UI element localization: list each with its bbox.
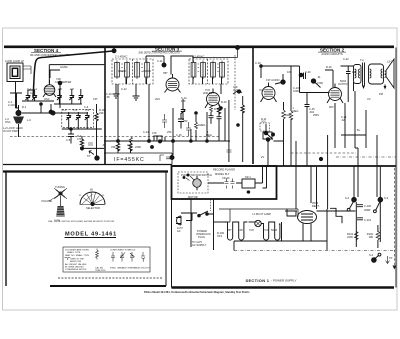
wires section 3 lower [104, 84, 230, 141]
svg-text:AC: AC [177, 229, 181, 233]
cap C-13 [186, 122, 191, 136]
svg-text:Z-1 455KC: Z-1 455KC [115, 55, 128, 59]
volume control R-11 [264, 124, 274, 145]
svg-text:2200: 2200 [347, 235, 353, 239]
wire top loop [261, 66, 330, 93]
svg-text:PM: PM [379, 92, 383, 96]
cap C-16 rect [154, 136, 162, 141]
interlock switch S-1 [198, 211, 209, 217]
pilot lamp I-1 [255, 220, 261, 226]
wire down right side [96, 129, 98, 158]
svg-text:47K: 47K [152, 131, 157, 135]
svg-text:C-11: C-11 [157, 59, 163, 63]
power supply section left border [171, 199, 173, 288]
boundary line right of IF band to right edge [172, 165, 396, 167]
svg-text:C-22: C-22 [343, 57, 349, 61]
coupling cap C-20 [304, 73, 306, 80]
svg-text:.004: .004 [309, 110, 315, 114]
dash-dot line top right [336, 156, 396, 158]
IF transformer Z-2 dashed box [189, 59, 228, 84]
wire grid line [49, 65, 104, 84]
Z-1 secondary coil [125, 63, 130, 78]
svg-text:S-2: S-2 [345, 196, 350, 200]
wires through gang [22, 104, 88, 113]
svg-text:90V: 90V [329, 105, 334, 109]
AC plug P-1 [176, 216, 181, 225]
svg-text:7B7: 7B7 [163, 71, 168, 75]
cap symbol in text [65, 258, 71, 261]
IF transformer Z-1 dashed box [112, 59, 153, 84]
node dot gang left [51, 111, 55, 115]
svg-text:C-5: C-5 [73, 108, 78, 112]
bottom-left panel bottom thick line [50, 285, 166, 287]
svg-text:2V: 2V [261, 155, 264, 159]
svg-text:VOL: VOL [261, 120, 267, 124]
mechanical link dashed [210, 199, 212, 211]
svg-text:C-20: C-20 [305, 70, 311, 74]
svg-text:50A5: 50A5 [271, 228, 278, 232]
wire plug to switch [181, 213, 197, 221]
row of wires under tube [10, 90, 54, 108]
node dot [58, 81, 62, 85]
svg-text:MEG: MEG [206, 133, 212, 137]
svg-text:C-4: C-4 [62, 108, 67, 112]
svg-text:MEG: MEG [293, 109, 299, 113]
svg-text:SECTION 4: SECTION 4 [34, 48, 59, 53]
B- bus dashed [234, 250, 396, 252]
bottom boundary of RF sections thin line [3, 164, 104, 166]
svg-text:SMALL TYPE: SMALL TYPE [67, 251, 81, 254]
resistor R-8 [195, 122, 198, 129]
wire antenna bottom down [16, 82, 19, 109]
svg-text:22K: 22K [127, 143, 132, 147]
svg-text:PHONO MOTOR SWITCH: PHONO MOTOR SWITCH [181, 173, 212, 177]
svg-text:7C6: 7C6 [264, 228, 269, 232]
svg-text:2-8: 2-8 [70, 87, 74, 91]
svg-text:1ST: 1ST [93, 97, 98, 101]
section 3 labels [106, 55, 238, 150]
arrow test point [89, 151, 94, 155]
svg-text:.05: .05 [106, 95, 110, 99]
panel labels [41, 185, 115, 223]
svg-text:C-2: C-2 [27, 87, 32, 91]
wires lower section2 [274, 127, 284, 166]
wires caps [356, 202, 380, 247]
AVC dashed bus [10, 136, 220, 138]
wire antenna to top bus thick curve [33, 51, 113, 97]
svg-text:CONVERTER: CONVERTER [55, 80, 71, 84]
svg-text:PLUG: PLUG [198, 235, 205, 239]
cap C-16 block [263, 132, 272, 139]
svg-text:.02: .02 [341, 118, 345, 122]
svg-text:7C6: 7C6 [249, 228, 254, 232]
svg-text:T-2: T-2 [360, 58, 364, 62]
pointer line volume [49, 197, 57, 202]
grid cap blob [281, 80, 285, 84]
svg-text:2ND DETECTOR AND AVC CIRCUITS: 2ND DETECTOR AND AVC CIRCUITS [138, 52, 180, 55]
wire verticals crossing lower [191, 108, 225, 141]
filter cap C-100 [357, 205, 363, 207]
tube V1 7A8 converter [43, 80, 56, 97]
dashed box small [260, 123, 270, 131]
stepped wire left of switches [330, 208, 342, 223]
svg-text:L-3: L-3 [27, 118, 31, 122]
cap C-9 [88, 143, 93, 145]
resistor R-6 [130, 137, 133, 143]
svg-text:SECTION 2: SECTION 2 [320, 47, 345, 52]
wires inside record box [208, 166, 267, 188]
svg-text:R-9: R-9 [214, 107, 219, 111]
resistor R-10 vertical [217, 106, 220, 114]
svg-text:470K: 470K [317, 81, 323, 85]
node dot on top bus [236, 46, 240, 50]
svg-text:AVC: AVC [233, 88, 238, 92]
AVC resistor diagonal [233, 91, 242, 95]
svg-text:VC: VC [367, 97, 371, 101]
svg-text:C-14: C-14 [143, 130, 149, 134]
svg-text:100: 100 [287, 70, 292, 74]
svg-text:40MF: 40MF [364, 208, 371, 212]
svg-text:MODEL M-7: MODEL M-7 [215, 172, 230, 176]
svg-text:.05: .05 [102, 143, 106, 147]
legend box [58, 247, 162, 278]
svg-text:TUNING: TUNING [55, 185, 65, 189]
resistor sample [96, 249, 99, 260]
resistor R-7 vertical [80, 139, 83, 147]
svg-text:R-1: R-1 [22, 105, 27, 109]
svg-text:7B7: 7B7 [227, 228, 232, 232]
svg-text:2ND DET: 2ND DET [203, 91, 215, 95]
loop antenna LP-1 [7, 63, 23, 82]
section 4 labels [3, 59, 106, 158]
tube V4 7C6 1st audio [261, 83, 277, 103]
svg-text:33.5: 33.5 [217, 234, 223, 238]
oscillator coil L-3 [13, 105, 24, 129]
svg-text:Z-2 455KC: Z-2 455KC [192, 55, 205, 59]
T-2 core with ground arrow [363, 63, 365, 86]
bottom-left panel right border [165, 172, 167, 287]
svg-text:1ST AUDIO: 1ST AUDIO [266, 78, 280, 82]
svg-text:C-19: C-19 [255, 61, 261, 65]
standby switch S-3 [374, 166, 383, 212]
B+ wire horizontals [291, 152, 356, 154]
svg-text:490K: 490K [285, 113, 291, 117]
wires power [219, 209, 298, 222]
svg-text:FIXED: FIXED [110, 268, 116, 270]
svg-text:2-4: 2-4 [33, 87, 37, 91]
antenna trimmer C-1 [25, 92, 30, 101]
svg-text:TP: TP [87, 154, 91, 158]
svg-text:100K: 100K [293, 89, 299, 93]
tuning gang dashed box [62, 110, 94, 128]
svg-text:AC SUPPLY: AC SUPPLY [192, 243, 207, 247]
wire bottom bus of section 4 [62, 121, 102, 129]
IF band box [104, 152, 172, 154]
svg-text:C-12: C-12 [121, 87, 127, 91]
tube V5 50A5 output [327, 84, 343, 104]
wires to audio [222, 77, 243, 162]
section 2 labels [255, 57, 393, 159]
trimmer symbol [130, 252, 135, 262]
resistor R-102 vertical [376, 231, 380, 239]
wire to section3 [82, 147, 104, 149]
wire to output tube grid [325, 70, 335, 148]
record player box [172, 166, 277, 199]
section 4 title [30, 48, 70, 57]
svg-text:RF AND CONVERTER CIRCUITS: RF AND CONVERTER CIRCUITS [30, 53, 70, 57]
Z-2 secondary coil [201, 63, 206, 78]
wire to AVC line [19, 105, 42, 137]
svg-text:7C6: 7C6 [259, 88, 264, 92]
svg-text:OSC: OSC [5, 120, 11, 124]
tuning knob shafts cross [54, 188, 67, 199]
svg-text:C-6: C-6 [85, 108, 90, 112]
extra verticals sec3 [183, 99, 219, 141]
node dot grid [162, 63, 166, 67]
svg-text:OTHERWISE NOTED: OTHERWISE NOTED [65, 269, 87, 271]
output transformer T-2 primary winding [354, 65, 362, 84]
svg-text:LOOP LOOP LP: LOOP LOOP LP [5, 59, 24, 63]
T-2 secondary winding [369, 64, 384, 84]
svg-text:.01: .01 [317, 75, 321, 79]
svg-text:TP: TP [389, 256, 393, 260]
svg-text:J-1: J-1 [246, 190, 250, 194]
svg-text:2-416: 2-416 [8, 103, 15, 107]
resistor R-5 vertical [129, 143, 132, 151]
IF band right closure [171, 153, 173, 165]
svg-text:DIAL, KNOB, SWITCH SPGS (REF): DIAL, KNOB, SWITCH SPGS (REF) SHOWN IN F… [48, 220, 115, 223]
resistor R-9 vertical [210, 105, 213, 112]
node dot on IF band [170, 156, 174, 160]
Z-2 dividing line [207, 59, 209, 84]
selector dial semicircle [80, 192, 105, 206]
svg-text:GANG: GANG [60, 65, 68, 69]
svg-text:IN CKT PART: IN CKT PART [3, 129, 19, 133]
svg-text:2-8: 2-8 [58, 87, 62, 91]
svg-text:250: 250 [183, 119, 188, 123]
standby switch S-2 [347, 166, 356, 211]
Z-2 second pair coils [211, 63, 216, 78]
power supply right border [395, 48, 397, 288]
node dot [319, 157, 322, 160]
diode load parts [178, 113, 184, 129]
svg-text:100000: 100000 [118, 70, 127, 73]
trimmer C-3 [32, 92, 37, 101]
wire Z1 to tube [126, 56, 164, 84]
svg-text:R-16: R-16 [326, 65, 332, 69]
capacitor CD-43 pair [225, 179, 229, 189]
node dot bottom [95, 156, 99, 160]
wire from dot down [59, 83, 61, 108]
power supply section bottom thick line [172, 286, 395, 288]
svg-text:7A8: 7A8 [238, 228, 243, 232]
grid cap wire [50, 70, 60, 78]
top section divider thick line [4, 45, 394, 48]
node dot junction [112, 49, 116, 53]
connecting verticals to power section [296, 118, 358, 166]
svg-text:ELECTROLYTIC: ELECTROLYTIC [136, 268, 152, 270]
svg-text:COMPONENT SYMBOLS: COMPONENT SYMBOLS [110, 250, 136, 252]
wire tube to Z2 [171, 56, 193, 75]
trimmer on det [181, 106, 186, 115]
section 3 title [138, 46, 182, 54]
resistor R-18 vertical [95, 113, 98, 121]
svg-text:S-4: S-4 [369, 253, 374, 257]
svg-text:250: 250 [167, 130, 172, 134]
svg-text:S-3: S-3 [384, 196, 389, 200]
svg-text:120: 120 [352, 70, 357, 74]
svg-text:C-2: C-2 [30, 91, 35, 95]
vertical divider between section 4 and section 3 [104, 48, 106, 166]
speaker LS-1 [384, 59, 395, 90]
resistor R-13 vertical [289, 111, 293, 120]
connector block SP-1 [242, 179, 255, 188]
svg-text:SP-1: SP-1 [245, 175, 251, 179]
svg-text:OUTPUT: OUTPUT [338, 82, 349, 86]
node dot [260, 65, 263, 68]
tone control hatched block [56, 196, 65, 217]
resistor R-15 vertical [241, 105, 244, 113]
ground symbol under Z-1 second [133, 84, 140, 100]
svg-text:- POWER SUPPLY: - POWER SUPPLY [271, 279, 297, 283]
power labels [177, 168, 393, 261]
cap C-14 [162, 114, 167, 128]
svg-text:R-10: R-10 [221, 100, 227, 104]
svg-text:RECT.: RECT. [312, 204, 320, 208]
ground symbol under Z-1 [113, 84, 120, 98]
svg-text:C-100: C-100 [364, 204, 372, 208]
filter cap C-101 [357, 218, 363, 220]
svg-text:OSC: OSC [44, 97, 50, 101]
padder C-4 [66, 112, 71, 121]
svg-text:SECTION 1: SECTION 1 [246, 278, 270, 283]
svg-text:PART NO. SMALL TYPE: PART NO. SMALL TYPE [65, 254, 90, 257]
resistor R-101 vertical [354, 231, 358, 239]
resistor R-4 vertical [116, 143, 119, 151]
svg-text:CD-43: CD-43 [222, 176, 230, 180]
node dots [299, 73, 303, 77]
svg-text:AVC: AVC [155, 97, 160, 101]
svg-text:180: 180 [369, 235, 374, 239]
rectifier V6 35Y4 [298, 211, 317, 230]
vertical divider between section 3 and section 2 [252, 48, 254, 165]
tube V3 7C6 2nd det [205, 89, 221, 109]
switch S-4 [372, 253, 381, 262]
heater string bus [214, 221, 224, 223]
resistor R-12 vertical [282, 110, 286, 119]
bottom-left panel top thick line [3, 170, 168, 172]
electrolytic symbol [141, 252, 145, 262]
section 3 vertical stubs [127, 77, 213, 141]
svg-text:VOLUME: VOLUME [41, 199, 52, 203]
svg-text:MOTOR: MOTOR [188, 195, 198, 199]
node dot [159, 140, 162, 143]
test point arrow [386, 256, 390, 264]
svg-text:1MEG: 1MEG [198, 123, 205, 127]
Z-2 primary coil [191, 63, 196, 78]
svg-text:LS-1: LS-1 [387, 60, 393, 64]
T-2 connecting wires [341, 66, 354, 91]
wires right down [345, 91, 377, 166]
svg-text:33K: 33K [99, 111, 104, 115]
svg-text:RECORD PLAYER: RECORD PLAYER [213, 168, 235, 172]
svg-text:B+: B+ [357, 128, 361, 132]
legend symbols [65, 249, 146, 262]
svg-text:TRIM POS: TRIM POS [95, 270, 106, 272]
cap C-15b vertical [305, 93, 310, 119]
node dot upper [80, 147, 83, 150]
svg-text:220K: 220K [135, 145, 141, 149]
svg-text:I-1 PILOT LAMP: I-1 PILOT LAMP [252, 212, 271, 216]
legend text block [65, 249, 151, 273]
stepped jog left of rectifier [287, 209, 296, 216]
junction dot main [49, 110, 53, 114]
cap C-18b [227, 150, 232, 152]
svg-text:Philco Model 49-1461, Tombston: Philco Model 49-1461, Tombstone/Continen… [144, 290, 250, 294]
svg-text:47K: 47K [77, 137, 82, 141]
wires [191, 199, 214, 250]
Z-1 coils second pair [135, 63, 140, 78]
svg-text:SECTION 3: SECTION 3 [155, 46, 180, 51]
Z-1 dividing line [132, 59, 134, 84]
heater string resistor R-100 comb [224, 222, 248, 240]
trimmer C-18 [69, 92, 74, 101]
svg-text:MODEL 49-1461: MODEL 49-1461 [65, 232, 117, 238]
svg-text:C-15: C-15 [176, 133, 182, 137]
phono motor [193, 179, 201, 187]
trimmer C-17 [57, 92, 62, 101]
svg-text:RESISTOR: RESISTOR [70, 261, 82, 263]
bus junction dots [117, 140, 120, 143]
Z-1 primary coil [115, 63, 120, 78]
verticals from section2 into power [296, 166, 377, 209]
svg-text:SELECTOR: SELECTOR [86, 206, 100, 210]
cap C-2 [68, 129, 74, 144]
svg-text:C-8: C-8 [66, 138, 71, 142]
cap C-22 [346, 66, 351, 80]
padder C-6 [85, 112, 90, 121]
svg-text:C-101: C-101 [364, 218, 372, 222]
svg-text:33K: 33K [111, 145, 116, 149]
section 2 title [318, 47, 346, 56]
svg-text:AUDIO CIRCUITS: AUDIO CIRCUITS [321, 52, 342, 56]
svg-text:100000: 100000 [143, 70, 152, 73]
tube V2 7B7 IF amp [165, 74, 181, 93]
svg-text:IF=455KC: IF=455KC [114, 157, 145, 163]
variable cap symbol [120, 252, 125, 262]
svg-text:VARIABLE: VARIABLE [117, 267, 127, 270]
svg-text:100: 100 [181, 99, 186, 103]
AVC filter parts right of Z-2 [234, 55, 236, 110]
padder C-5 [76, 112, 81, 121]
motor dashed box [178, 172, 208, 193]
fixed cap symbol [111, 252, 115, 262]
bottom-left panel left border [5, 172, 7, 287]
switch arm from dot [314, 81, 321, 88]
arrow down right [393, 168, 395, 268]
